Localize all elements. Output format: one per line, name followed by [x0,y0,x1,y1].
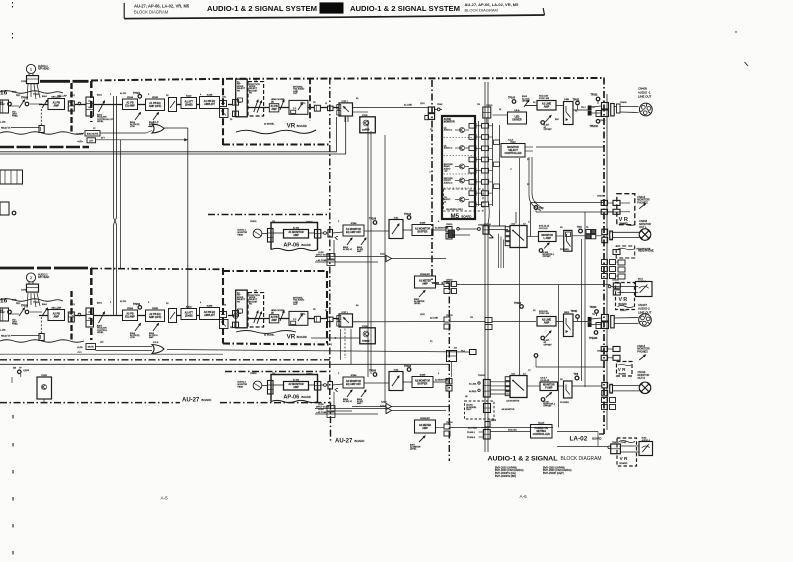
svg-text:CN: CN [477,104,481,106]
long wire y151.8 [0,117,336,152]
svg-text:PHONES: PHONES [637,351,648,354]
svg-text:VR: VR [287,122,296,129]
block A1 line amp [537,101,556,111]
ground arrow 1 [335,236,338,239]
svg-text:IC305: IC305 [420,223,426,225]
block monitor P amp [540,382,558,391]
wire head-board 1 [262,233,268,235]
wire M5 top connector [486,118,488,123]
small boxes L2N 2 [327,406,335,412]
svg-text:TP031: TP031 [571,311,578,313]
svg-text:M5: M5 [451,213,460,220]
svg-text:AU-27: AU-27 [335,439,353,445]
connector to LA 2 [446,379,452,385]
speck top right 2 [745,62,749,66]
trimmer A1 EQ low [135,113,141,121]
svg-text:LEVEL: LEVEL [97,332,104,334]
connector into VR A1 lower [233,111,239,117]
svg-text:REC: REC [1,104,6,106]
test point TP201 [138,306,142,310]
wire A1 meter line [436,284,445,286]
wire controller vertical pair down [529,157,541,211]
trimmer monitor-1 offset [544,243,549,249]
dash-dot jog x432-449 [432,282,449,284]
bus dash-dot vertical x604 [603,78,605,435]
tall connector 3-cell feed switch2 [483,380,490,398]
wire TP7 to bus [535,209,537,212]
block IC104 A1 PB EQ AMP [123,99,138,110]
svg-text:IC108: IC108 [207,95,213,97]
speck mid [429,171,430,172]
svg-text:CN403: CN403 [597,351,604,353]
connector headphone vr 1 [613,250,620,255]
svg-text:PHONES: PHONES [637,202,648,205]
margin dotted left mid [12,33,14,40]
dashed VR board box meter audio-1 [616,283,635,310]
trimmer A1 EQ hi [153,113,159,121]
small box A1 out b [220,109,229,118]
svg-text:CN42: CN42 [621,442,627,444]
dashed group box M5 bottom [444,189,484,211]
wire att to eq ampl A1 [197,104,200,106]
connector pair phones 1 on bus [601,200,607,205]
block LL20x A2 [86,344,96,350]
svg-text:A2 PB: A2 PB [120,300,127,303]
connector CN201 3-cell [86,308,94,327]
connector head to board 1 3cell [268,229,274,243]
svg-text:IC208: IC208 [207,306,213,308]
extra wire switch1 TP7 drop [515,212,517,224]
wire connector to EQ amp A1 [94,104,123,106]
trimmer A2 EQ low [135,324,141,332]
svg-text:V R: V R [619,217,628,223]
M5 switch cell col B row 5 [482,168,489,173]
svg-text:IC 601: IC 601 [293,380,300,382]
test point TP10B 1 [373,221,377,225]
left edge partial box y202 [0,202,9,215]
svg-text:TP306: TP306 [369,370,377,373]
block IC601 A1 monitor amp [284,230,309,239]
rail corner vertical x330 long [329,78,331,404]
svg-text:BLOCK DIAGRAM: BLOCK DIAGRAM [465,7,498,12]
trimmer A1 offset [545,116,551,123]
connector CN101 3-cell [86,97,94,116]
node circle before CN30A [478,228,481,231]
wire vertical x385 [384,135,386,403]
straddle box on vertical 2 [328,382,333,390]
svg-text:PHONES: PHONES [560,402,569,404]
svg-text:CN48: CN48 [437,104,443,106]
svg-text:TP202: TP202 [133,303,141,306]
block A2 PB AMP [48,310,65,321]
node circle after M5 conn [457,227,460,230]
wire mid x447 down [451,362,453,378]
svg-text:AMPLIFY: AMPLIFY [204,314,215,317]
board outline VR2 wavy bottom [236,331,296,334]
M5 switch cell col A row 6 [469,180,476,185]
thick dash rail y144 segment [223,143,330,145]
wire bundle below switch1 [498,234,500,269]
svg-text:TP203: TP203 [590,307,597,309]
wire controller right 2 [525,150,533,152]
wire vertical center x488 wavy [488,82,489,452]
wire EQ to amp-off A2 [138,315,146,317]
wire meter audio-2 long feed [557,446,608,448]
svg-text:BOARD: BOARD [619,372,627,375]
svg-text:BOARD: BOARD [619,303,628,306]
wire left board bias [9,105,20,107]
svg-text:IC313: IC313 [381,402,387,404]
svg-text:IC210: IC210 [186,307,192,309]
block record/play switch right of VR2 [339,314,353,327]
connector monitor out feed a [602,229,608,234]
connector head to board 2 3cell [268,381,274,395]
left edge partial box y170 [0,170,23,184]
connector grid below monitor out 2 [602,398,608,403]
connector monitor out 2 feed b [602,391,608,396]
svg-text:L/L2N: L/L2N [77,347,83,349]
connector VR1 out b [328,106,334,111]
wire mute into IC302 ch2 [311,337,361,339]
svg-text:INPUT GUIDE: INPUT GUIDE [316,255,330,257]
svg-text:AMP: AMP [271,108,277,111]
connector pair left of M5 [428,107,434,113]
svg-text:HEAD: HEAD [237,234,243,237]
svg-text:AUDIO-1 & 2 SIGNAL: AUDIO-1 & 2 SIGNAL [488,455,558,462]
svg-text:CN602: CN602 [306,222,313,224]
thick bus line top [40,80,91,83]
svg-text:AC-30A: AC-30A [469,383,477,386]
block monitor switch matrix 1 [510,226,527,248]
trimmer monitor eq a 2 [347,390,352,397]
wire cluster to conn [596,235,602,237]
margin dotted line left top [12,2,14,9]
connector pair phones 2 on bus [601,347,607,352]
board outline left wavy top [0,91,63,94]
svg-text:S-BB: S-BB [564,99,569,101]
relay K201 [68,312,74,322]
vertical controller output x519 [519,158,521,375]
thick dash vertical x223 ch1 [222,78,224,145]
svg-text:AMP: AMP [357,402,362,405]
block LED driver [508,112,527,124]
svg-text:R/P HEAD: R/P HEAD [38,68,50,71]
svg-text:TR: TR [592,107,595,109]
wires headphone grid [616,261,619,263]
test point TP10B 2 [373,373,377,377]
wire or-gate1 out [164,127,188,129]
block VR2 R/P mode select [236,290,248,328]
block IC303 transistor [37,377,52,399]
svg-text:AUDIO-1: AUDIO-1 [444,129,453,132]
dark inner box M5 out conn [448,230,454,238]
svg-text:CN601: CN601 [250,221,257,223]
block IC205 A2 PB EQ AMP (OFF) [146,310,165,322]
svg-text:A1 PB: A1 PB [120,92,127,95]
wires connector to switch2 [490,381,510,383]
svg-text:AC,HEAD: AC,HEAD [468,427,478,430]
wire VR2 internal [247,318,269,320]
connector VR2 out b [328,317,334,322]
wire M5 cells row 3 [476,147,482,149]
svg-text:EQ AMP OFF: EQ AMP OFF [346,383,362,386]
wire to att A2 [177,315,182,317]
dash-dot rail above AP-06 2 [225,371,330,373]
svg-text:CN405: CN405 [612,280,619,282]
block monitor select controller [501,144,525,158]
tall connector muting 2cell [483,430,490,440]
dash-dot vertical x432 [431,80,433,283]
svg-text:AUDIO-2: AUDIO-2 [444,147,453,150]
svg-text:RELAY IN: RELAY IN [1,334,11,337]
svg-text:OUT: OUT [293,304,298,306]
svg-text:PL300-1: PL300-1 [467,432,476,434]
svg-text:(E): (E) [271,101,274,103]
svg-text:CN305: CN305 [490,420,497,422]
svg-text:IC2,3: IC2,3 [511,142,517,144]
svg-text:V R: V R [618,367,626,372]
M5 switch cell col A row 1 [469,124,476,129]
svg-text:IC2,3: IC2,3 [508,140,514,142]
jack audio-2 line out [639,314,652,327]
node junction A1 PB [78,102,81,105]
svg-text:TP108: TP108 [369,218,377,221]
svg-text:(20dB): (20dB) [185,103,193,106]
svg-text:1: 1 [30,67,32,71]
connector CN30A switch1 feed [483,226,489,234]
svg-text:AMP: AMP [544,322,550,325]
block monitor level box 2 [389,372,403,391]
thick dash divider x71 ch2 [70,291,72,341]
test point TP6 ch2 [575,376,579,380]
svg-text:2: 2 [30,276,32,280]
svg-text:A2 MONITOR: A2 MONITOR [502,408,515,411]
wire meter audio-1 [611,286,638,288]
connector into VR A2 [233,311,239,317]
transistor M5 row 4 [459,178,464,183]
wire M5 cells row 7 [476,192,482,194]
wire buffer out 1 [364,230,389,232]
wire M5 cells row 6 [476,181,482,183]
wire led driver left [493,114,508,116]
M5 switch cell col B row 1 [482,124,489,129]
wires out of switch 1 [527,236,539,238]
wire VR2 out [308,318,315,320]
ground symbol below CN30A [489,234,494,238]
svg-text:IC 601: IC 601 [293,228,300,230]
test point TP203 [595,310,599,314]
svg-text:K201: K201 [70,304,76,306]
trimmer A2 PB align control level [99,312,105,323]
svg-text:TP8: TP8 [574,373,579,376]
test point TP6 [579,229,583,233]
svg-text:OSC+LRP: OSC+LRP [51,308,61,310]
block IC30x stage VR2 [360,328,376,344]
svg-text:BOARD: BOARD [302,395,311,399]
wire vertical center x485 [484,82,486,452]
dark connector pair TR A1 [588,106,591,110]
svg-text:CN409: CN409 [620,102,627,104]
svg-text:LINE OUT: LINE OUT [638,94,652,98]
connector grid headphone [602,260,608,265]
dashed drop below IC2F1 ch2 [344,329,346,359]
header right tick [543,8,544,15]
dark connector cluster before monitor conn [586,230,591,234]
svg-text:VR: VR [287,333,296,340]
svg-text:3RD: 3RD [12,92,17,94]
wire conn to monitor jack 1 [613,231,640,233]
svg-text:SYNC-105: SYNC-105 [539,313,550,315]
node circle after conn 1 [324,232,327,235]
svg-text:IC305,307: IC305,307 [420,418,430,420]
svg-text:LA-02: LA-02 [570,435,588,442]
svg-text:ONLY: ONLY [466,409,472,411]
long wire y154 [0,117,346,154]
long dash-dot rail y360 ch2 [0,359,330,361]
wire or-gate2 out [167,350,470,353]
wire M5 row 3 [455,166,459,168]
svg-text:BOARD: BOARD [297,335,307,339]
dash-dot board line y402 right segment [220,402,330,404]
wire line amp to connectors [556,105,564,107]
svg-text:24 MODEL: 24 MODEL [264,124,275,126]
svg-text:IC204: IC204 [127,307,133,310]
wire vertical x187 chain link [187,128,189,309]
transistor M5 row 1 [459,127,464,132]
wire controller to lineamp area [499,210,501,226]
svg-text:SYNC-10B: SYNC-10B [539,98,550,100]
small box A2 out a [220,312,227,318]
M5 third column cells [494,140,500,145]
wire left board bias [9,313,20,315]
svg-text:16: 16 [0,90,8,97]
ground arrow 2 [335,388,338,391]
transistor M5 row 5 [459,197,464,202]
block VR2 A PB AMP [269,315,279,323]
svg-text:CN601: CN601 [250,373,257,375]
block VR1 R/P mode select [236,79,248,117]
gate IC2-D mute A2 [152,345,164,354]
wire M5 out to controller area [499,125,501,143]
connector grid A2 line out [602,315,609,322]
svg-text:BOARD: BOARD [302,243,311,247]
header black separator block [320,2,344,13]
block A2 line amp [537,317,556,327]
node circle right of conn [437,108,440,111]
svg-text:OFFSET: OFFSET [544,129,553,131]
wire TR to conn A1 [591,106,601,107]
block VR2 line out select [289,311,308,325]
vertical wire x581 link [581,239,583,381]
jack monitor out 1 hatched [639,229,651,241]
M5 switch cell col A row 7 [469,191,476,196]
board outline AP-06 1 [271,223,318,250]
svg-text:TP008: TP008 [21,97,29,100]
wire switch1 up to TP7 rail [529,203,531,237]
pill connector monitor out 1 [610,231,613,240]
straddle box on vertical 1 [328,230,333,238]
wire conn pairs phones 1 [608,202,614,204]
svg-text:BOARD: BOARD [462,215,472,219]
connector top of M5 columns [483,107,491,118]
svg-text:TP7: TP7 [539,207,544,210]
svg-text:TP: TP [13,367,16,370]
block IC304 A2 monitor eq amp off [343,377,364,388]
connector AP out 2 [315,382,321,391]
svg-text:CN602: CN602 [306,374,313,376]
wire muting to controller [490,431,531,433]
svg-text:BVH-2000PM (BR): BVH-2000PM (BR) [495,475,516,478]
connector to LA 1 [446,227,452,233]
wire M5 cells row 2 [476,136,482,138]
wire conn to monitor jack 2 [613,385,640,387]
svg-text:CN: CN [454,348,458,350]
svg-text:AP-06: AP-06 [283,242,299,248]
vertical wire x558 meter link [558,285,560,428]
svg-text:BLOCK DIAGRAM: BLOCK DIAGRAM [134,10,169,15]
wire VR2 select drop a [340,329,342,360]
svg-text:CN304: CN304 [446,422,453,424]
jack monitor out 2 hatched [639,382,651,394]
block monitor level box 1 [389,220,403,239]
svg-text:CN: CN [272,373,276,375]
wire rail y202 to bus [530,202,604,204]
svg-text:IC305,307: IC305,307 [420,274,430,276]
svg-text:AMP: AMP [422,427,428,430]
svg-text:RELAY IN: RELAY IN [1,126,11,129]
audio head AUDIO-1 [26,64,35,73]
relay K101 [68,101,74,111]
wire relay in [11,335,39,337]
svg-text:A-6: A-6 [520,494,528,499]
test point TP103 [512,100,516,104]
connector inside LB box [484,404,491,413]
svg-text:(20dB): (20dB) [185,314,193,317]
M5 switch cell col A row 4 [469,157,476,162]
connector A2 line a [444,317,450,322]
svg-text:TPE102: TPE102 [590,126,599,128]
svg-text:MONITOR: MONITOR [444,122,455,124]
svg-text:FM: FM [254,80,257,82]
wires into switch 1 [459,228,477,230]
svg-text:TP401: TP401 [133,92,141,95]
switch box A1 mute [169,98,177,112]
wire A2 meter line [436,427,444,429]
wire conn to meter audio-2 [620,445,639,447]
svg-text:AUDIO-1 & 2 SIGNAL SYSTEM: AUDIO-1 & 2 SIGNAL SYSTEM [350,4,460,13]
tall box sod switch A2 [564,314,574,337]
svg-text:CN302: CN302 [446,280,453,282]
svg-text:(E): (E) [271,312,274,314]
wires head2 to board [27,293,40,308]
connector AP out 1 [315,230,321,239]
wire meter1 feed vertical [609,285,611,286]
wire VR2 between connectors [320,318,327,320]
svg-text:L/L2N: L/L2N [318,409,324,411]
svg-text:OSC+LRP: OSC+LRP [57,96,67,98]
svg-text:BOARD: BOARD [620,222,629,225]
wire controller right 1 [525,146,533,148]
svg-text:HEADPHONE: HEADPHONE [637,248,651,251]
connector A2 meter [444,424,450,429]
wire TP7b ch2 [534,354,538,358]
wire M5 column bus B [492,123,494,206]
test point left board a [8,310,12,314]
svg-text:LEVEL: LEVEL [522,100,529,102]
svg-text:L/L2(N): L/L2(N) [76,134,83,136]
relay symbol left board [39,334,44,341]
test point TP101 [138,95,142,99]
